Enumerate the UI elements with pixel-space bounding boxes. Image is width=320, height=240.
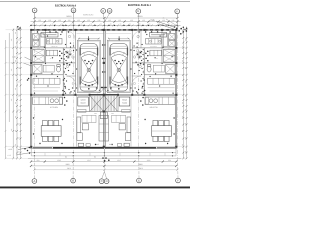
svg-text:C: C xyxy=(102,9,104,13)
svg-text:135: 135 xyxy=(38,19,41,22)
svg-text:1317: 1317 xyxy=(117,159,121,162)
svg-text:585.5: 585.5 xyxy=(139,167,143,170)
svg-text:135: 135 xyxy=(172,19,175,22)
svg-text:135: 135 xyxy=(48,19,51,22)
svg-text:135: 135 xyxy=(87,19,90,22)
svg-text:161.5: 161.5 xyxy=(150,18,154,21)
svg-text:135: 135 xyxy=(142,19,145,22)
svg-text:550: 550 xyxy=(168,159,171,162)
svg-text:B: B xyxy=(72,179,74,183)
svg-text:0.90: 0.90 xyxy=(168,48,171,50)
svg-text:585.5: 585.5 xyxy=(66,15,72,18)
svg-text:ELECTRICAL PLAN Nο 1: ELECTRICAL PLAN Nο 1 xyxy=(128,4,151,7)
svg-text:585.5: 585.5 xyxy=(67,167,71,170)
svg-text:1317: 1317 xyxy=(87,159,91,162)
svg-text:0.40: 0.40 xyxy=(12,56,16,59)
svg-text:135: 135 xyxy=(130,19,133,22)
svg-text:84: 84 xyxy=(94,156,96,159)
svg-text:135: 135 xyxy=(98,19,101,22)
svg-text:70: 70 xyxy=(50,58,52,60)
svg-text:B: B xyxy=(73,8,75,12)
svg-text:ELECTRICAL PLAN Nο 9: ELECTRICAL PLAN Nο 9 xyxy=(55,5,76,8)
svg-text:0.20: 0.20 xyxy=(11,62,15,65)
svg-text:A: A xyxy=(34,8,36,12)
svg-text:1293: 1293 xyxy=(147,159,151,162)
svg-text:A: A xyxy=(33,179,35,183)
svg-text:C: C xyxy=(101,179,103,183)
svg-text:MACH: MACH xyxy=(81,102,87,105)
svg-text:HUMAN SCALE: HUMAN SCALE xyxy=(83,13,94,16)
svg-text:70: 70 xyxy=(156,58,158,60)
svg-text:135: 135 xyxy=(118,19,121,22)
svg-text:KITCHEN: KITCHEN xyxy=(50,106,59,109)
svg-text:F: F xyxy=(176,9,178,13)
svg-text:0.90: 0.90 xyxy=(37,48,40,50)
svg-text:84: 84 xyxy=(65,156,67,159)
svg-text:-0.15: -0.15 xyxy=(7,154,11,157)
svg-text:E: E xyxy=(137,9,139,13)
svg-text:2960: 2960 xyxy=(66,163,70,166)
svg-text:WASH: WASH xyxy=(81,99,87,102)
svg-text:MACH: MACH xyxy=(121,102,127,105)
svg-text:1293: 1293 xyxy=(57,159,61,162)
svg-text:E: E xyxy=(138,179,140,183)
svg-text:135: 135 xyxy=(68,19,71,22)
svg-text:D: D xyxy=(109,9,111,13)
svg-text:D: D xyxy=(106,179,108,183)
svg-text:135: 135 xyxy=(77,19,80,22)
svg-text:WASH: WASH xyxy=(121,99,127,102)
svg-text:KITCHEN: KITCHEN xyxy=(149,106,158,109)
svg-text:2960: 2960 xyxy=(139,163,143,166)
svg-text:135: 135 xyxy=(58,19,61,22)
svg-text:550: 550 xyxy=(37,159,40,162)
svg-text:135: 135 xyxy=(108,19,111,22)
svg-text:+0.05: +0.05 xyxy=(8,148,12,151)
svg-text:F: F xyxy=(177,179,179,183)
